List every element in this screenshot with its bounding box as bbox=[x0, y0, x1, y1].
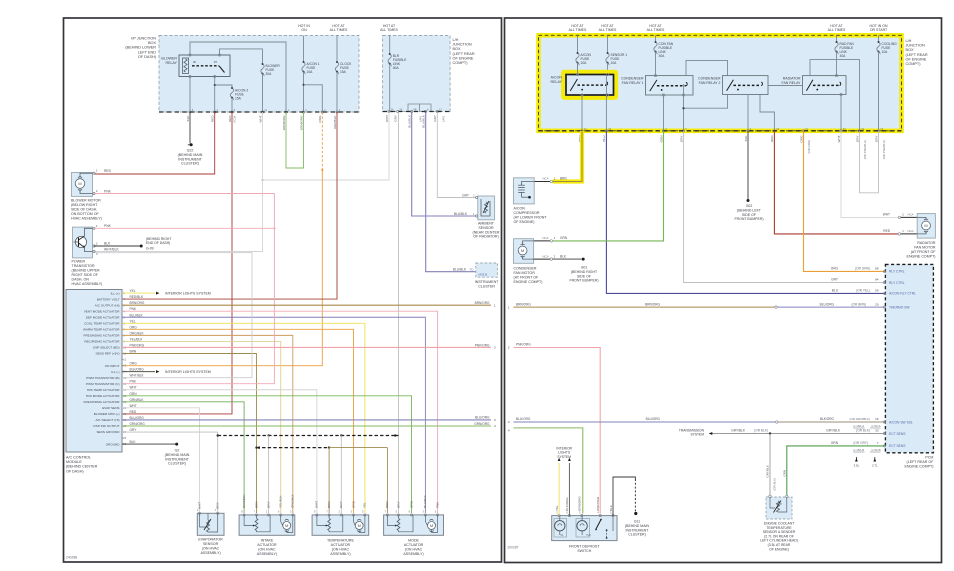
svg-text:DSP IND OUTPUT: DSP IND OUTPUT bbox=[93, 424, 119, 428]
svg-text:BLK: BLK bbox=[186, 115, 190, 122]
page border right bbox=[505, 18, 942, 563]
svg-text:YEL/BLK: YEL/BLK bbox=[279, 495, 283, 508]
svg-text:OF ENGINE: OF ENGINE bbox=[906, 57, 927, 61]
svg-text:G2: G2 bbox=[175, 449, 180, 453]
svg-text:BLK: BLK bbox=[560, 254, 567, 258]
label PNK/ORG rotated bbox=[596, 496, 600, 511]
L/H junction box highlighted (right page) bbox=[539, 35, 928, 131]
wire PNK pin16 to blower/PT bbox=[94, 194, 276, 384]
shield dashed line 1 bbox=[217, 434, 399, 437]
svg-text:PCM: PCM bbox=[925, 456, 933, 460]
svg-text:GRY: GRY bbox=[266, 501, 270, 508]
svg-text:ALL TIMES: ALL TIMES bbox=[380, 28, 398, 32]
svg-text:SENSOR: SENSOR bbox=[478, 226, 494, 230]
svg-text:PNK: PNK bbox=[130, 307, 137, 311]
svg-text:A/CON SW SIG.: A/CON SW SIG. bbox=[889, 420, 913, 424]
svg-text:GRN/BLK: GRN/BLK bbox=[130, 398, 145, 402]
svg-text:NCA: NCA bbox=[908, 229, 914, 233]
wire YEL pin6 to temp actuator bbox=[122, 323, 365, 513]
svg-text:ECM: ECM bbox=[233, 115, 237, 122]
svg-text:OF ENGINE): OF ENGINE) bbox=[769, 547, 789, 551]
svg-text:M: M bbox=[521, 248, 524, 253]
svg-text:RADIATOR: RADIATOR bbox=[783, 77, 801, 81]
wire BRN/ORG pin3 to page2 bbox=[122, 301, 496, 307]
svg-text:GRN: GRN bbox=[560, 236, 568, 240]
svg-text:BOX: BOX bbox=[906, 48, 914, 52]
svg-text:ENGINE COMPT): ENGINE COMPT) bbox=[904, 465, 933, 469]
footer code right page bbox=[508, 546, 519, 550]
L/H junction box (left page) bbox=[383, 36, 475, 112]
svg-text:(BELOW RIGHT: (BELOW RIGHT bbox=[71, 203, 98, 207]
wire CFR1 to CFR2 top bbox=[686, 60, 728, 75]
svg-text:RED/BLK: RED/BLK bbox=[130, 295, 145, 299]
svg-text:RED: RED bbox=[883, 229, 890, 233]
wire CFR1-CFR2 bottom link bbox=[682, 95, 727, 110]
svg-text:BLU/BLK: BLU/BLK bbox=[423, 494, 427, 508]
svg-text:C-50-A: C-50-A bbox=[871, 424, 880, 428]
svg-text:ORG: ORG bbox=[130, 325, 138, 329]
svg-text:BLOWER MTR (+): BLOWER MTR (+) bbox=[94, 412, 120, 416]
wire GRY to PCM RLY CTRL bbox=[684, 131, 885, 283]
svg-text:MODULE: MODULE bbox=[66, 460, 82, 464]
page border left bbox=[64, 18, 502, 562]
svg-text:PNK: PNK bbox=[104, 189, 112, 193]
wire GRY/BLK ECT sens bbox=[679, 429, 885, 437]
svg-text:NCA: NCA bbox=[542, 236, 548, 240]
svg-text:(OR BLK): (OR BLK) bbox=[754, 429, 768, 433]
svg-text:ALL TIMES: ALL TIMES bbox=[330, 28, 348, 32]
svg-text:ASSEMBLY): ASSEMBLY) bbox=[330, 552, 350, 556]
svg-text:24028B: 24028B bbox=[66, 556, 78, 560]
svg-text:GRY: GRY bbox=[831, 278, 839, 282]
condenser fan relay 2 bbox=[698, 76, 768, 95]
svg-text:ORG: ORG bbox=[799, 135, 803, 143]
wire GRY alternate pair bbox=[860, 131, 879, 193]
L/H right box connector strip bbox=[539, 130, 902, 132]
svg-text:RED/BLK: RED/BLK bbox=[333, 115, 337, 129]
svg-text:WHT/BLK: WHT/BLK bbox=[130, 374, 145, 378]
svg-text:SWITCH: SWITCH bbox=[577, 549, 592, 553]
wire RED IP to ACM pin21 bbox=[122, 112, 232, 414]
wire RED to radiator fan motor bbox=[774, 131, 917, 235]
svg-text:RLY CTRL: RLY CTRL bbox=[889, 281, 905, 285]
svg-text:30A: 30A bbox=[659, 54, 666, 58]
wire BLK to ground G01 bbox=[553, 258, 582, 260]
wire WHT pin17 to temp actuator bbox=[122, 390, 317, 513]
svg-text:ORG/BLK: ORG/BLK bbox=[291, 493, 295, 508]
svg-text:COMPT): COMPT) bbox=[453, 61, 469, 65]
svg-text:ORG: ORG bbox=[351, 500, 355, 508]
svg-text:CLUSTER): CLUSTER) bbox=[181, 162, 199, 166]
svg-text:(AT FRONT OF: (AT FRONT OF bbox=[911, 250, 937, 254]
svg-text:(BEHIND MAIN: (BEHIND MAIN bbox=[178, 153, 203, 157]
wire GRN ECT sens bbox=[782, 441, 884, 495]
svg-text:OF RADIATOR): OF RADIATOR) bbox=[473, 235, 498, 239]
svg-text:(OR PNK/BLK): (OR PNK/BLK) bbox=[863, 140, 867, 159]
svg-text:INSTRUMENT: INSTRUMENT bbox=[178, 157, 202, 161]
svg-text:GRY: GRY bbox=[874, 136, 878, 143]
wire GRY to intake actuator bbox=[268, 436, 270, 514]
svg-text:NCA: NCA bbox=[542, 254, 548, 258]
svg-text:GRN/ORG: GRN/ORG bbox=[282, 115, 286, 130]
svg-text:ECT SENS: ECT SENS bbox=[889, 432, 906, 436]
svg-text:ACTUATOR: ACTUATOR bbox=[404, 543, 424, 547]
wire BLU to PCM A/CON RLY CTRL bbox=[606, 131, 884, 294]
svg-text:BLU/ORG: BLU/ORG bbox=[820, 302, 835, 306]
wire GRY LH to ambient sensor bbox=[437, 112, 476, 198]
svg-text:NCA: NCA bbox=[542, 177, 548, 181]
svg-text:RELAY: RELAY bbox=[165, 61, 177, 65]
ground G02 right page bbox=[734, 199, 763, 221]
wire branch to A/CON 2 fuse bbox=[214, 84, 232, 88]
svg-text:BLK: BLK bbox=[609, 504, 613, 511]
svg-text:JUNCTION: JUNCTION bbox=[453, 43, 472, 47]
svg-text:BLU/BLK: BLU/BLK bbox=[453, 268, 467, 272]
svg-text:CLUSTER): CLUSTER) bbox=[628, 533, 646, 537]
svg-text:BRN/ORG: BRN/ORG bbox=[516, 302, 531, 306]
wire GRY to temp actuator bbox=[340, 436, 342, 514]
svg-text:BRN/ORG: BRN/ORG bbox=[130, 301, 145, 305]
wire BLK/ORG pin14 interior lights bbox=[122, 370, 211, 374]
wire CFR1 output GRN bbox=[654, 75, 684, 131]
wire GRN/ORG pin23 to page2 bbox=[122, 422, 496, 428]
svg-text:GRY: GRY bbox=[433, 115, 437, 122]
wire BLK defrost to ground bbox=[609, 477, 636, 516]
svg-text:10A: 10A bbox=[882, 50, 889, 54]
svg-text:2.7L: 2.7L bbox=[872, 464, 878, 468]
wire GRN to condenser fan motor bbox=[534, 131, 664, 242]
wire ORG dashed alt bbox=[321, 112, 323, 171]
wire PNK power transistor branch bbox=[94, 227, 274, 229]
svg-text:BRN: BRN bbox=[254, 501, 258, 508]
wire GRN pin18 to mode actuator bbox=[122, 396, 412, 513]
label GRN/ORG rotated bbox=[578, 496, 582, 511]
svg-text:(BEHIND RIGHT: (BEHIND RIGHT bbox=[571, 270, 598, 274]
svg-text:(BEHIND MAIN: (BEHIND MAIN bbox=[165, 453, 190, 457]
svg-text:30A: 30A bbox=[266, 72, 273, 76]
svg-text:(OR BLK): (OR BLK) bbox=[856, 429, 870, 433]
wire WHT pin20 to evaporator sensor bbox=[122, 408, 200, 513]
svg-text:OR START: OR START bbox=[870, 28, 888, 32]
wire YEL defrost to interior lights bbox=[555, 458, 561, 516]
svg-text:ASSEMBLY): ASSEMBLY) bbox=[403, 552, 423, 556]
svg-text:WHT: WHT bbox=[130, 404, 137, 408]
svg-text:FAN RELAY: FAN RELAY bbox=[782, 81, 802, 85]
svg-text:BLK/ORG: BLK/ORG bbox=[565, 497, 569, 511]
svg-text:BATTERY VOLT: BATTERY VOLT bbox=[97, 297, 120, 301]
wire RED/BLK to ACM pin2 bbox=[122, 112, 337, 299]
svg-text:ORG: ORG bbox=[831, 267, 839, 271]
svg-text:OF DASH): OF DASH) bbox=[138, 55, 157, 59]
svg-text:BLU/BLK: BLU/BLK bbox=[130, 313, 144, 317]
svg-text:GRY: GRY bbox=[394, 115, 398, 122]
wire BLK PT to G09 bbox=[94, 245, 139, 247]
svg-text:M: M bbox=[924, 223, 927, 228]
svg-text:3.5L: 3.5L bbox=[854, 464, 860, 468]
svg-text:TEMPERATURE: TEMPERATURE bbox=[327, 539, 354, 543]
wire BLU/BLK to instrument cluster bbox=[426, 112, 476, 272]
svg-text:EVAP SENS: EVAP SENS bbox=[102, 406, 119, 410]
svg-text:(OR BRN): (OR BRN) bbox=[851, 302, 866, 306]
svg-text:DASH, ON: DASH, ON bbox=[72, 278, 90, 282]
L/H internal bus bbox=[408, 104, 431, 112]
engine coolant temperature sensor bbox=[760, 495, 798, 551]
svg-text:EVAPORATOR: EVAPORATOR bbox=[198, 538, 223, 542]
svg-text:WHT: WHT bbox=[837, 135, 841, 142]
wire BRN to mode actuator bbox=[386, 448, 388, 513]
svg-text:BRN/ORG: BRN/ORG bbox=[475, 301, 490, 305]
svg-text:MODE: MODE bbox=[408, 539, 419, 543]
svg-text:GRN/ORG: GRN/ORG bbox=[578, 496, 582, 511]
ground G2 bbox=[165, 443, 190, 466]
ground G-09 bbox=[138, 237, 172, 251]
svg-text:CLUSTER): CLUSTER) bbox=[168, 462, 186, 466]
svg-text:BLOWER: BLOWER bbox=[161, 57, 177, 61]
svg-text:33: 33 bbox=[875, 429, 879, 433]
svg-text:M: M bbox=[78, 181, 81, 186]
svg-text:(NEAR CENTER: (NEAR CENTER bbox=[473, 230, 500, 234]
svg-text:L/H: L/H bbox=[453, 38, 459, 42]
svg-text:SYSTEM: SYSTEM bbox=[557, 455, 571, 459]
svg-text:FAN RELAY 2: FAN RELAY 2 bbox=[699, 81, 721, 85]
wire WHT IP to power transistor bbox=[94, 112, 263, 252]
svg-text:(LEFT REAR: (LEFT REAR bbox=[906, 53, 928, 57]
svg-text:OF ENGINE: OF ENGINE bbox=[453, 56, 474, 60]
wire BLU/ORG pin22 to page2 bbox=[122, 416, 496, 422]
svg-text:M: M bbox=[358, 523, 361, 528]
svg-text:GRY/BLK: GRY/BLK bbox=[766, 465, 770, 478]
wire BLK to ground G02 right bbox=[747, 131, 749, 199]
svg-text:54: 54 bbox=[875, 289, 879, 293]
svg-text:COMPT): COMPT) bbox=[906, 62, 922, 66]
svg-text:GRY: GRY bbox=[679, 136, 683, 143]
svg-text:RED: RED bbox=[104, 169, 112, 173]
radiator fan motor bbox=[907, 214, 937, 259]
svg-text:G11: G11 bbox=[634, 520, 640, 524]
L/H box connector strip (left page) bbox=[383, 111, 451, 113]
svg-text:G22: G22 bbox=[187, 149, 194, 153]
svg-text:GRY: GRY bbox=[396, 501, 400, 508]
wire PNK/ORG pin10 to page2 bbox=[122, 343, 496, 349]
wire GRN/ORG loop bbox=[286, 112, 304, 168]
wire RFR top to GRY leg bbox=[810, 60, 860, 131]
wire BRN/ORG thermo switch bbox=[508, 302, 885, 309]
wire CFR2 output BLK bbox=[747, 95, 749, 131]
wire PNK/ORG to defrost switch bbox=[508, 343, 600, 514]
svg-text:JUNCTION: JUNCTION bbox=[906, 44, 925, 48]
svg-text:(ON HVAC: (ON HVAC bbox=[202, 547, 220, 551]
svg-text:ON INPUT: ON INPUT bbox=[105, 364, 120, 368]
svg-text:ALL TIMES: ALL TIMES bbox=[828, 28, 846, 32]
svg-text:SENS REF (+5V): SENS REF (+5V) bbox=[96, 352, 120, 356]
svg-text:WHT: WHT bbox=[883, 213, 890, 217]
svg-text:G02: G02 bbox=[746, 204, 753, 208]
wire ORG to ACM pin13 bbox=[122, 170, 322, 366]
svg-text:(OR BLK): (OR BLK) bbox=[773, 478, 777, 491]
svg-text:RECIR/DMG ACTUATOR: RECIR/DMG ACTUATOR bbox=[84, 340, 120, 344]
svg-text:GRY: GRY bbox=[216, 502, 220, 509]
wire ORG to PCM RLY CTRL bbox=[804, 131, 885, 272]
svg-text:ORG: ORG bbox=[130, 362, 138, 366]
label HOT AT ALL TIMES (IP) bbox=[330, 24, 348, 32]
svg-text:INTERIOR LIGHTS SYSTEM: INTERIOR LIGHTS SYSTEM bbox=[165, 370, 211, 374]
svg-text:RLY CTRL: RLY CTRL bbox=[889, 270, 905, 274]
svg-text:BLK: BLK bbox=[104, 242, 111, 246]
svg-text:(LEFT REAR OF: (LEFT REAR OF bbox=[907, 460, 935, 464]
svg-text:WHT: WHT bbox=[197, 502, 201, 509]
svg-text:RED: RED bbox=[770, 135, 774, 142]
intake actuator bbox=[239, 493, 295, 556]
svg-text:RELAY: RELAY bbox=[550, 80, 562, 84]
wire ORG/BLK pin8 to intake actuator bbox=[122, 335, 293, 513]
label feed HOT AT bbox=[569, 24, 587, 32]
svg-text:RED: RED bbox=[228, 115, 232, 122]
svg-text:PNK/ORG: PNK/ORG bbox=[130, 343, 145, 347]
svg-text:(OR GRN): (OR GRN) bbox=[807, 140, 811, 154]
svg-text:(BEHIND CENTER: (BEHIND CENTER bbox=[66, 465, 98, 469]
svg-text:YEL: YEL bbox=[130, 289, 136, 293]
A/CON compressor bbox=[514, 178, 548, 224]
shield dashed line 2 bbox=[255, 446, 330, 449]
svg-text:ORG: ORG bbox=[318, 115, 322, 123]
svg-text:(OR GRN): (OR GRN) bbox=[855, 267, 870, 271]
svg-text:ALL TIMES: ALL TIMES bbox=[599, 28, 617, 32]
fuse A/CON 2 15A bbox=[230, 87, 248, 112]
svg-text:HVAC ASSEMBLY): HVAC ASSEMBLY) bbox=[71, 217, 102, 221]
svg-text:M33.B: M33.B bbox=[479, 272, 488, 276]
svg-text:NCA: NCA bbox=[908, 213, 914, 217]
svg-text:M: M bbox=[285, 523, 288, 528]
svg-text:GRN: GRN bbox=[659, 136, 663, 143]
svg-text:COOL TEMP ACTUATOR: COOL TEMP ACTUATOR bbox=[84, 322, 120, 326]
PCM pin connectors bbox=[883, 270, 916, 449]
svg-text:WHT: WHT bbox=[130, 386, 137, 390]
svg-text:A/C OUTPUT (HI): A/C OUTPUT (HI) bbox=[95, 303, 120, 307]
svg-text:BOX: BOX bbox=[148, 41, 156, 45]
label feed HOT AT bbox=[647, 24, 665, 32]
wire BLU/BLK to ambient sensor bbox=[412, 112, 476, 217]
svg-text:BRN/ORG: BRN/ORG bbox=[645, 302, 660, 306]
svg-text:SIDE OF DASH,: SIDE OF DASH, bbox=[71, 208, 97, 212]
svg-text:COMPRESSOR: COMPRESSOR bbox=[514, 211, 540, 215]
svg-text:ILL (+): ILL (+) bbox=[111, 291, 120, 295]
svg-text:END OF DASH): END OF DASH) bbox=[146, 241, 170, 245]
svg-text:CONDENSER: CONDENSER bbox=[698, 77, 721, 81]
svg-text:15A: 15A bbox=[235, 97, 242, 101]
svg-text:ALL TIMES: ALL TIMES bbox=[569, 28, 587, 32]
svg-text:10A: 10A bbox=[581, 61, 588, 65]
svg-text:WARM TEMP ACTUATOR: WARM TEMP ACTUATOR bbox=[83, 328, 120, 332]
svg-text:16: 16 bbox=[875, 417, 879, 421]
svg-text:PWM TRANSISTOR (C): PWM TRANSISTOR (C) bbox=[86, 382, 119, 386]
svg-text:OF ENGINE): OF ENGINE) bbox=[514, 220, 535, 224]
svg-text:WHT/BLK: WHT/BLK bbox=[104, 247, 119, 251]
wire BLU/ORG to PCM A/CON SW SIG bbox=[508, 417, 885, 428]
svg-text:A/CON: A/CON bbox=[514, 207, 526, 211]
svg-text:SIDE OF: SIDE OF bbox=[742, 213, 756, 217]
svg-text:FRESH/DMG ACTUATOR: FRESH/DMG ACTUATOR bbox=[84, 400, 121, 404]
fuse A/CON 10A bbox=[576, 35, 592, 74]
svg-text:TRANSISTOR: TRANSISTOR bbox=[72, 264, 96, 268]
svg-text:YEL/BLK: YEL/BLK bbox=[130, 337, 144, 341]
svg-text:20028T: 20028T bbox=[508, 546, 519, 550]
svg-text:(AT FRONT OF: (AT FRONT OF bbox=[514, 276, 540, 280]
wire RFR output WHT bbox=[835, 75, 842, 131]
svg-text:FRONT BUMPER): FRONT BUMPER) bbox=[734, 217, 763, 221]
svg-text:ILL (-): ILL (-) bbox=[111, 370, 119, 374]
svg-text:GRN: GRN bbox=[782, 470, 786, 476]
wire RED to blower motor bbox=[94, 112, 215, 174]
svg-text:GRY/BLK: GRY/BLK bbox=[826, 429, 841, 433]
L/H box bottom pin connectors bbox=[385, 108, 446, 128]
svg-text:PNK: PNK bbox=[435, 501, 439, 508]
wire branch ORG pin bbox=[303, 84, 323, 112]
svg-text:GRY/BLK: GRY/BLK bbox=[731, 429, 746, 433]
svg-text:GRY: GRY bbox=[339, 501, 343, 508]
svg-text:GRY: GRY bbox=[462, 194, 470, 198]
svg-text:PNK/ORG: PNK/ORG bbox=[516, 343, 531, 347]
svg-text:(OR YEL): (OR YEL) bbox=[856, 289, 870, 293]
svg-text:(OR PNK/BLK): (OR PNK/BLK) bbox=[882, 140, 886, 159]
wire blower relay output RED bbox=[214, 77, 216, 113]
svg-text:BLU/ORG: BLU/ORG bbox=[130, 416, 145, 420]
I/P junction box bbox=[125, 36, 359, 113]
wire YEL/BLK pin9 to intake actuator bbox=[122, 341, 281, 513]
wire RFR link CFR2 bbox=[768, 85, 803, 87]
wire A/CON relay coil BLU bbox=[605, 75, 607, 131]
svg-text:PNK/ORG: PNK/ORG bbox=[596, 496, 600, 511]
svg-text:S4: S4 bbox=[560, 533, 564, 537]
svg-text:FRONT DEFROST: FRONT DEFROST bbox=[569, 545, 600, 549]
wire BLU/BLK pin5 to mode actuator bbox=[122, 317, 425, 513]
svg-text:BOX: BOX bbox=[453, 47, 461, 51]
svg-text:(BEHIND LEFT: (BEHIND LEFT bbox=[737, 208, 762, 212]
svg-text:(ON HVAC: (ON HVAC bbox=[405, 548, 423, 552]
I/P box connector strip bbox=[159, 111, 359, 113]
wire A/CON relay output BRN bbox=[581, 95, 583, 131]
svg-text:BLU: BLU bbox=[832, 289, 839, 293]
condenser fan motor bbox=[514, 239, 567, 284]
svg-text:40A: 40A bbox=[393, 66, 400, 70]
svg-text:YEL: YEL bbox=[130, 319, 136, 323]
svg-text:OF DASH): OF DASH) bbox=[66, 469, 84, 473]
svg-text:GROUND: GROUND bbox=[106, 442, 121, 446]
A/CON relay (highlighted) bbox=[550, 72, 616, 98]
wire A/CON relay feed bbox=[576, 63, 608, 97]
svg-text:WHT: WHT bbox=[315, 501, 319, 508]
svg-text:(ON HVAC: (ON HVAC bbox=[258, 548, 276, 552]
svg-text:BLU/BLK: BLU/BLK bbox=[454, 212, 468, 216]
svg-text:A/C SELECT (HI): A/C SELECT (HI) bbox=[95, 418, 119, 422]
svg-text:ECT SENS: ECT SENS bbox=[889, 444, 906, 448]
svg-text:C-150-A: C-150-A bbox=[853, 424, 864, 428]
svg-text:RED: RED bbox=[130, 410, 137, 414]
defrost switch pin connectors bbox=[556, 510, 614, 516]
blower relay K1 bbox=[161, 54, 230, 78]
label feed HOT AT bbox=[828, 24, 846, 32]
svg-text:SYSTEM: SYSTEM bbox=[690, 433, 704, 437]
svg-text:(BEHIND UPPER: (BEHIND UPPER bbox=[72, 269, 101, 273]
svg-text:YEL: YEL bbox=[363, 502, 367, 508]
svg-text:GRN/ORG: GRN/ORG bbox=[299, 115, 303, 130]
svg-text:BLU/ORG: BLU/ORG bbox=[516, 417, 531, 421]
label HOT IN ON bbox=[298, 24, 310, 32]
svg-text:HI/S MODE ACTUATOR: HI/S MODE ACTUATOR bbox=[86, 394, 120, 398]
svg-text:A/CON: A/CON bbox=[551, 76, 563, 80]
label feed HOT IN ON bbox=[869, 24, 888, 32]
wire CFR1 coil GRY bbox=[683, 84, 685, 131]
wire BLK/ORG defrost to interior lights bbox=[565, 458, 571, 516]
